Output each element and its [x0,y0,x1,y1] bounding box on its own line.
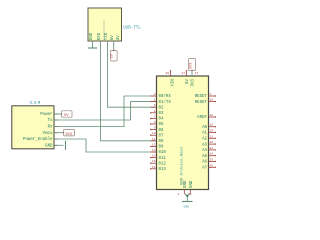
junction dot at 5V label (GSM Power) [61,113,62,114]
svg-text:3V3: 3V3 [65,133,73,137]
svg-text:04: 04 [159,118,164,122]
svg-text:010: 010 [159,151,167,155]
svg-text:012: 012 [159,162,167,166]
svg-text:23: 23 [210,147,214,150]
junction dot GND [186,195,188,197]
net label 3V3 (vertical, above Nano) [189,59,196,71]
svg-text:GND Arduino_Nano: GND Arduino_Nano [180,146,185,185]
svg-text:26: 26 [210,164,214,167]
junction dot at 5V label (USB) [113,50,114,51]
net label 3V3 (GSM Vmcu) [64,130,75,137]
svg-text:4: 4 [178,193,180,196]
svg-text:GND: GND [90,32,94,40]
svg-text:1: 1 [154,99,156,102]
IC U1 top pin stubs VIN 5V [171,71,187,77]
svg-text:19: 19 [210,124,214,127]
svg-text:AREF: AREF [197,116,207,120]
IC U1 right pin stubs [209,96,216,167]
svg-text:24: 24 [210,153,214,156]
svg-text:GND: GND [190,180,194,188]
module U2 GSM body [12,106,54,149]
net label 5V (vertical, below USB-TTL) [110,51,117,62]
svg-text:RXD: RXD [98,32,102,40]
svg-text:07: 07 [159,134,164,138]
svg-text:A5: A5 [202,155,207,159]
ground symbol below USB-TTL [88,47,97,49]
svg-text:21: 21 [210,135,214,138]
svg-text:7: 7 [154,115,156,118]
svg-text:GND: GND [184,206,190,209]
ground symbol right of GSM (rotated) [65,141,67,150]
connector J1 USB-TTL body [88,8,122,41]
ground symbol below Nano [182,201,193,203]
svg-text:03: 03 [159,112,164,116]
svg-text:5V: 5V [111,35,115,40]
svg-text:3V3: 3V3 [192,79,196,87]
IC U1 right pin numbers [210,93,214,167]
IC U1 top pin numbers 30 27 17 [166,72,199,75]
IC U1 left pin stubs D0-D13 [151,96,157,169]
pin endpoint dots [150,70,216,169]
svg-text:3V3: 3V3 [189,63,193,69]
wire GSM Power_Enable to Nano D10 [54,139,157,152]
svg-text:20: 20 [210,130,214,133]
IC U1 right pin labels [195,95,208,170]
net label 5V (GSM Power) [62,111,73,118]
wire USB RXD to Nano D8 [101,41,157,141]
module U2 pin stubs [54,114,58,145]
svg-text:27: 27 [182,72,186,75]
svg-text:3: 3 [210,93,212,96]
svg-text:14: 14 [152,155,156,158]
wire GSM GND to ground [54,144,64,146]
svg-text:30: 30 [166,72,170,75]
svg-text:17: 17 [195,72,199,75]
svg-text:3V: 3V [117,35,121,40]
svg-text:16: 16 [152,166,156,169]
svg-text:13: 13 [152,149,156,152]
svg-text:Rx: Rx [48,126,53,130]
IC U1 bottom pin labels GND GND (vertical) [184,180,194,188]
svg-text:5: 5 [154,104,156,107]
svg-text:06: 06 [159,129,164,133]
svg-text:25: 25 [210,159,214,162]
wire USB GND down [92,41,94,48]
svg-text:Tx: Tx [48,119,53,123]
svg-text:A7: A7 [202,167,207,171]
wire GSM Tx to Nano D1/TX [54,102,157,120]
svg-text:TXD: TXD [105,32,109,40]
svg-text:A0: A0 [202,126,207,130]
svg-text:28: 28 [210,99,214,102]
wire joining GND pins to ground [184,194,190,202]
svg-text:GSM: GSM [30,102,41,106]
svg-text:11: 11 [152,138,156,141]
IC U1 left pin labels D0-D13 [159,94,172,172]
svg-text:VIN: VIN [171,79,175,87]
svg-text:Power_Enable: Power_Enable [23,137,53,142]
junction dot at 3V3 label (Nano) [191,70,192,71]
IC U1 top pin labels VIN 5V 3V3 (vertical) [171,79,195,87]
wire USB TXD to Nano D2 [108,41,157,107]
svg-text:01/TX: 01/TX [159,100,172,105]
IC U1 bottom pin numbers 4 29 [178,193,192,196]
svg-text:08: 08 [159,140,164,144]
IC U1 Arduino Nano body [157,76,209,190]
svg-text:6: 6 [154,110,156,113]
svg-text:GND: GND [184,180,188,188]
svg-text:12: 12 [152,143,156,146]
svg-text:RESET: RESET [195,101,208,105]
svg-text:9: 9 [154,127,156,130]
module U2 pin labels [23,113,53,148]
svg-text:09: 09 [159,146,164,150]
IC U1 left pin numbers [152,93,156,169]
wire GSM Rx to Nano D0/RX [54,96,157,127]
svg-text:Power: Power [40,113,53,117]
svg-text:011: 011 [159,157,167,161]
svg-text:5V: 5V [111,53,115,58]
junction dot at 3V3 label (GSM Vmcu) [63,132,64,133]
svg-text:02: 02 [159,106,164,110]
svg-text:USB-TTL: USB-TTL [123,27,141,31]
wire USB 5V pin to net label [113,41,115,51]
svg-text:013: 013 [159,168,167,172]
svg-text:A3: A3 [202,143,207,147]
svg-text:RESET: RESET [195,95,208,99]
connector J1 pin labels GND RXD TXD 5V [90,32,121,40]
IC U1 bottom GND pin stubs [184,190,190,194]
wire GSM Vmcu to net label [54,132,64,134]
svg-text:A6: A6 [202,161,207,165]
svg-text:5V: 5V [64,114,69,118]
svg-text:5V: 5V [186,79,190,84]
wire GSM Power to net label [54,113,62,115]
svg-text:18: 18 [210,114,214,117]
svg-text:GND: GND [45,145,53,149]
svg-text:A1: A1 [202,132,207,136]
svg-text:Vmcu: Vmcu [43,132,53,136]
svg-text:00/RX: 00/RX [159,94,172,99]
svg-text:15: 15 [152,160,156,163]
wire Nano 3V3 top pin to net label [191,71,193,77]
svg-text:05: 05 [159,123,164,127]
svg-text:A4: A4 [202,149,207,153]
svg-text:8: 8 [154,121,156,124]
svg-text:2: 2 [154,93,156,96]
svg-text:A2: A2 [202,138,207,142]
svg-text:10: 10 [152,132,156,135]
svg-text:22: 22 [210,141,214,144]
